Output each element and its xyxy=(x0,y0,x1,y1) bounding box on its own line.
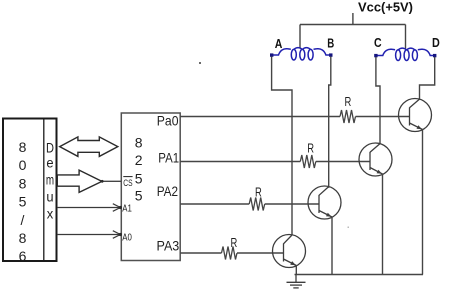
wire C to Q2 collector xyxy=(376,57,380,144)
speck artifact 1 xyxy=(199,62,201,64)
svg-text:PA3: PA3 xyxy=(157,237,180,253)
transistor Q2 xyxy=(359,143,392,176)
terminal dot C xyxy=(374,54,377,57)
wire Pa0 line xyxy=(180,116,409,118)
svg-text:0: 0 xyxy=(19,157,27,173)
svg-text:Pa0: Pa0 xyxy=(157,113,179,129)
junction dot A0 pin xyxy=(119,233,122,236)
svg-text:/: / xyxy=(21,212,25,228)
wire A to Q4 collector xyxy=(272,57,292,235)
svg-text:A: A xyxy=(275,37,283,51)
resistor R3 xyxy=(249,198,265,211)
svg-text:5: 5 xyxy=(135,188,143,204)
label 8085/86 xyxy=(19,139,27,264)
motor winding L2 C-D xyxy=(376,48,435,60)
emitter arrow Q4 xyxy=(290,261,296,265)
svg-text:R: R xyxy=(345,94,352,109)
svg-text:8: 8 xyxy=(19,139,27,155)
svg-text:x: x xyxy=(47,206,54,222)
CS select fat arrow xyxy=(57,170,102,192)
PPI U1 8255 xyxy=(121,113,180,261)
Vcc stub wire xyxy=(352,13,354,25)
label 8255 xyxy=(135,135,143,204)
wire D to Q1 collector xyxy=(420,57,435,99)
wire A1 with arrow xyxy=(57,204,120,212)
wire Q2 emitter down xyxy=(382,174,384,275)
speck artifact 2 xyxy=(348,227,350,229)
svg-text:D: D xyxy=(432,36,440,50)
svg-text:8: 8 xyxy=(19,175,27,191)
wire Q1 emitter down xyxy=(422,130,424,275)
emitter arrow Q1 xyxy=(417,125,423,129)
wire PA3 line xyxy=(180,252,283,254)
transistor Q1 xyxy=(399,99,432,132)
Vcc rail wire xyxy=(300,24,406,26)
wire rail to winding CD center tap xyxy=(405,25,407,49)
emitter arrow Q2 xyxy=(377,170,382,174)
terminal dot D xyxy=(433,54,436,57)
label Demux xyxy=(46,140,54,222)
transistor Q4 xyxy=(273,235,306,268)
terminal dot A xyxy=(270,53,273,56)
svg-text:m: m xyxy=(46,172,54,188)
svg-text:PA2: PA2 xyxy=(157,183,179,199)
wire PA2 line xyxy=(180,203,319,205)
svg-text:e: e xyxy=(46,155,53,171)
svg-text:6: 6 xyxy=(19,248,27,264)
motor winding L1 A-B xyxy=(272,48,331,60)
svg-text:R: R xyxy=(307,141,314,156)
svg-text:8: 8 xyxy=(135,135,143,151)
svg-text:Vcc(+5V): Vcc(+5V) xyxy=(358,0,413,15)
svg-text:R: R xyxy=(255,184,262,199)
svg-text:2: 2 xyxy=(135,152,143,168)
svg-text:PA1: PA1 xyxy=(158,149,179,165)
emitter arrow Q3 xyxy=(326,213,332,217)
junction dot A1 pin xyxy=(119,206,122,209)
junction dot CS tip xyxy=(101,180,104,183)
svg-text:8: 8 xyxy=(19,230,27,246)
CS overline xyxy=(123,176,132,178)
wire Q3 emitter down xyxy=(331,217,333,275)
svg-text:D: D xyxy=(46,140,54,156)
svg-text:5: 5 xyxy=(135,170,143,186)
transistor Q3 xyxy=(308,186,341,219)
resistor R1 xyxy=(340,110,356,123)
svg-text:CS: CS xyxy=(123,178,132,189)
wire A0 with arrow xyxy=(57,231,120,239)
resistor R4 xyxy=(222,247,238,260)
wire B to Q3 collector xyxy=(329,57,331,188)
svg-text:B: B xyxy=(327,37,334,51)
wire Q4 emitter down xyxy=(295,266,297,275)
svg-text:C: C xyxy=(374,36,382,50)
svg-text:A1: A1 xyxy=(122,204,132,215)
svg-text:u: u xyxy=(46,189,53,205)
svg-text:5: 5 xyxy=(19,194,27,210)
CPU block 8085/86 xyxy=(3,119,57,262)
svg-text:A0: A0 xyxy=(122,233,132,244)
resistor R2 xyxy=(300,155,316,168)
wire PA1 line xyxy=(180,161,370,163)
svg-text:R: R xyxy=(231,235,238,250)
data bus double arrow xyxy=(60,137,118,157)
ground xyxy=(287,275,306,288)
terminal dot B xyxy=(329,53,332,56)
wire rail to winding AB center tap xyxy=(299,25,301,49)
wire arrow tip to CS pin xyxy=(102,180,121,182)
wire emitter bus xyxy=(295,274,424,276)
